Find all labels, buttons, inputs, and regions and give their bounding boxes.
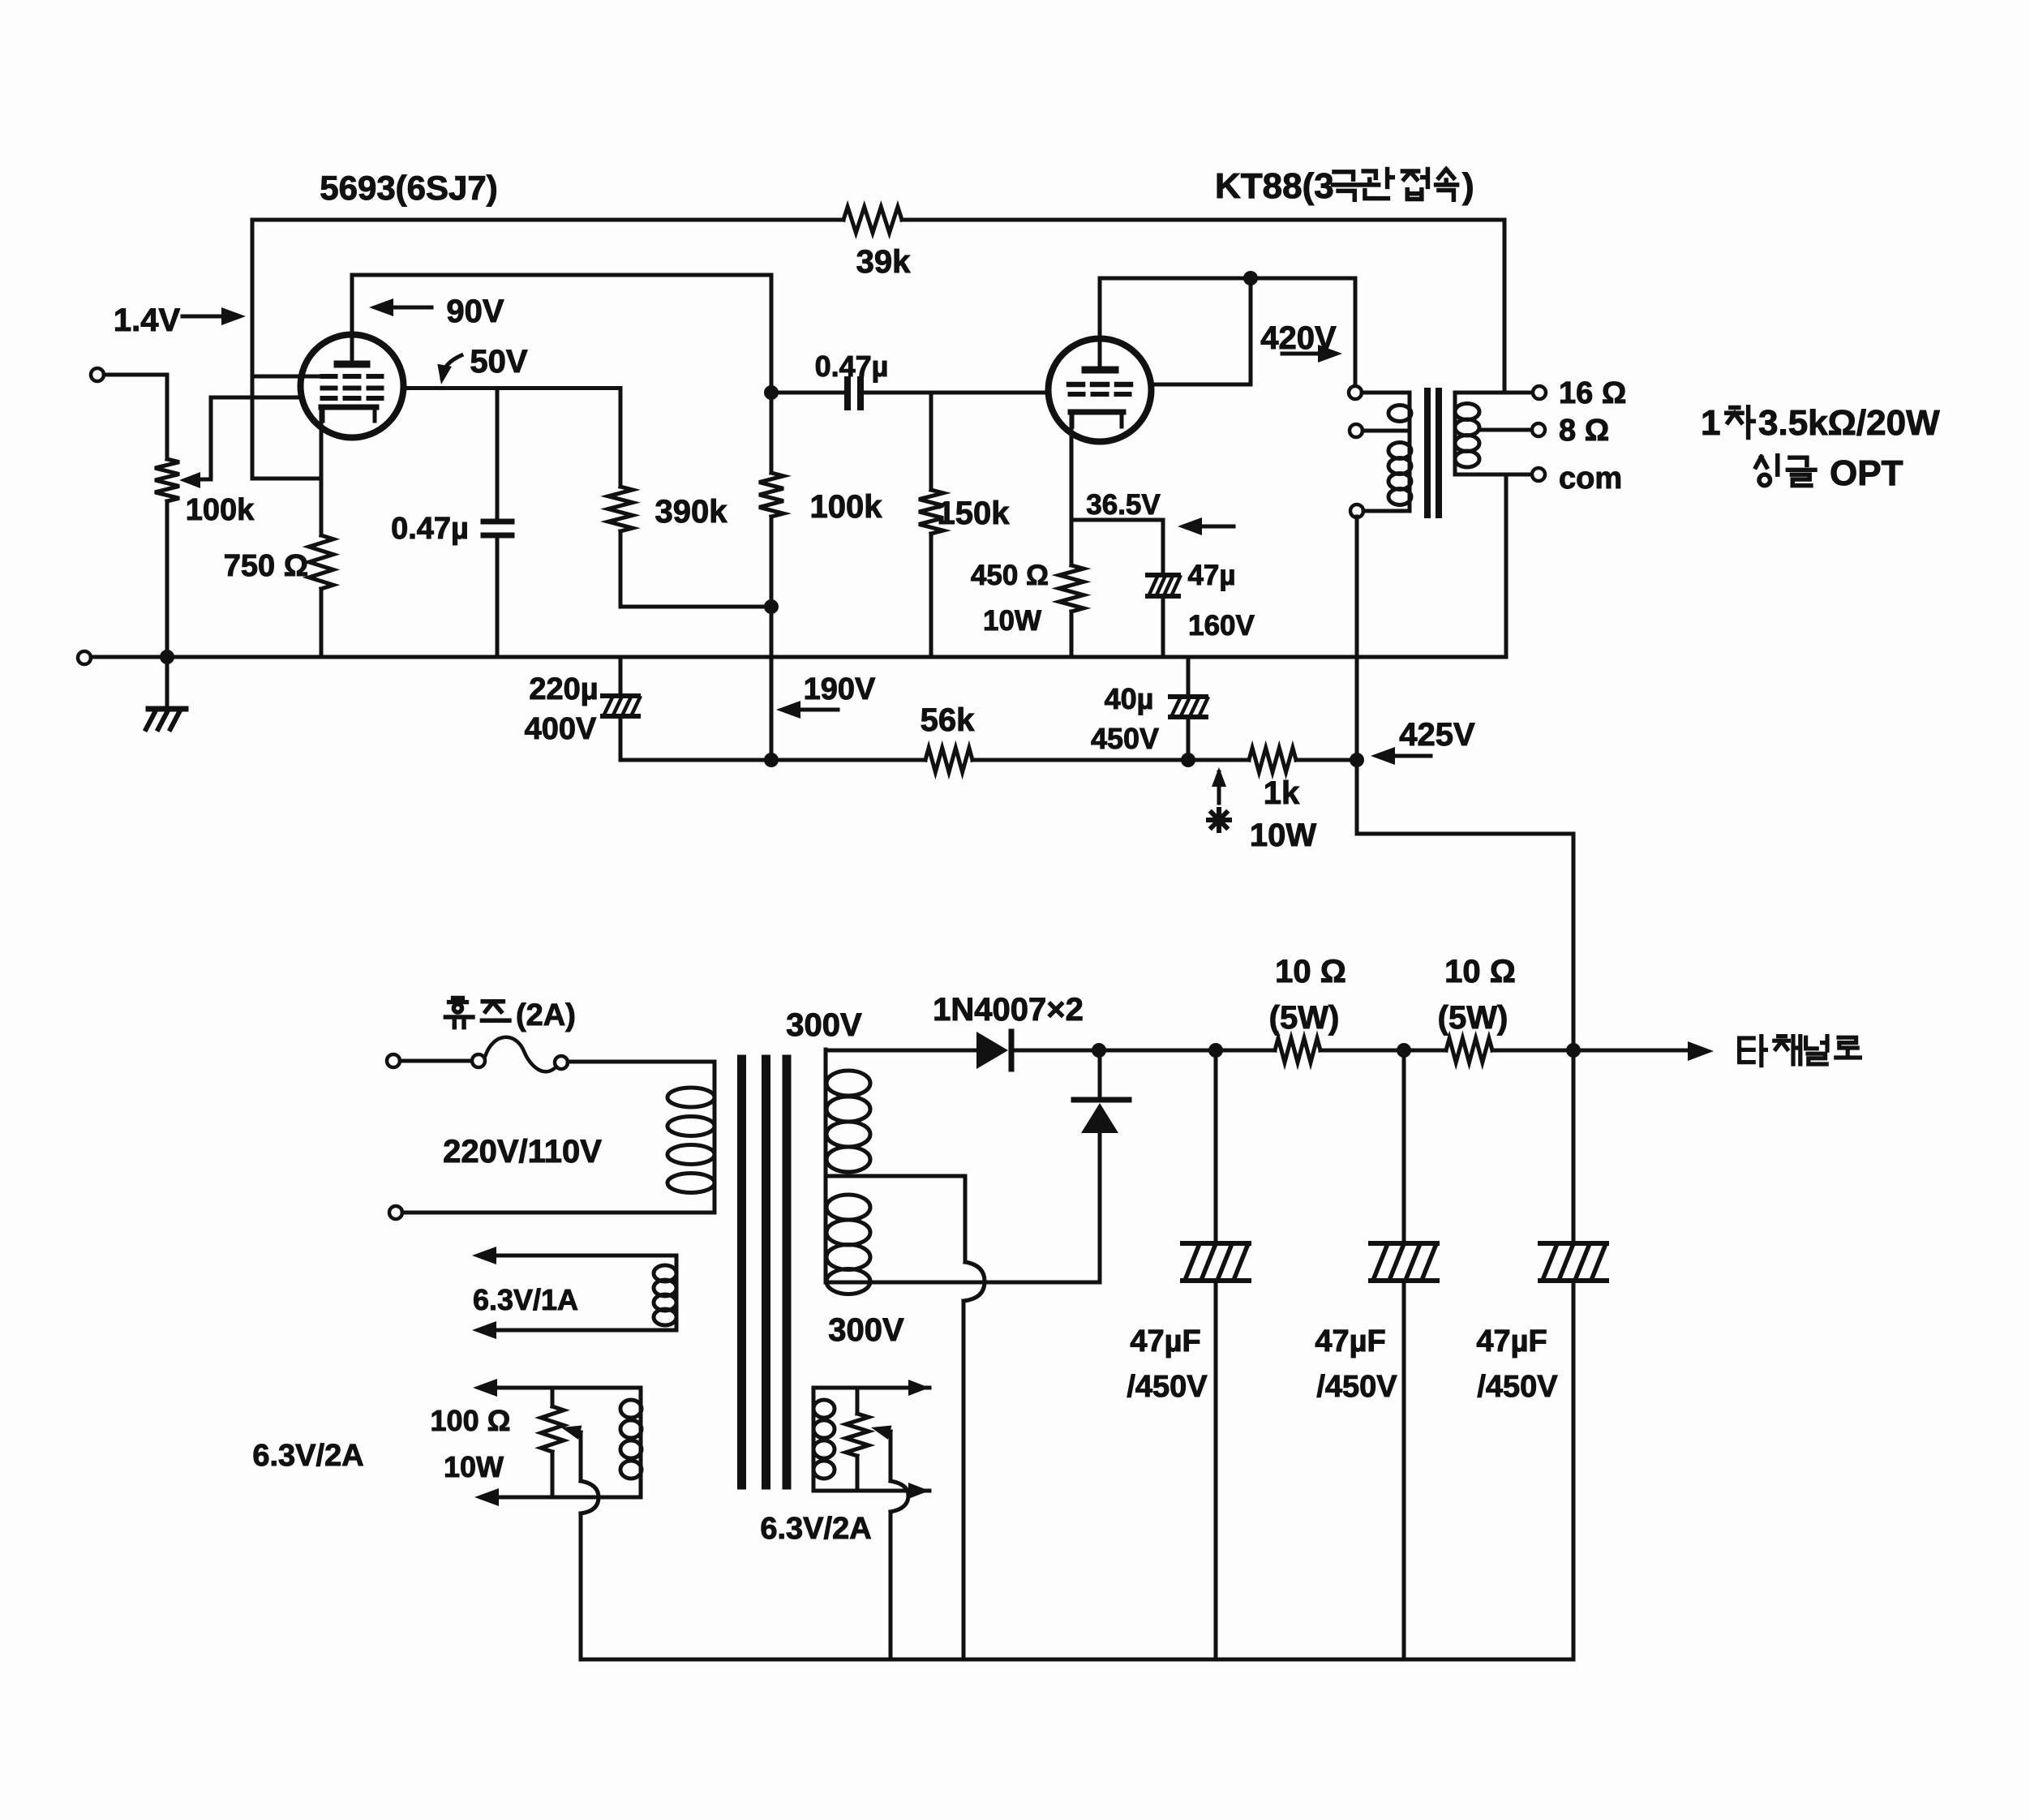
svg-text:56k: 56k [921,702,975,738]
svg-text:10W: 10W [983,605,1041,637]
svg-text:/450V: /450V [1477,1370,1558,1404]
svg-text:400V: 400V [525,712,597,746]
svg-text:10 Ω: 10 Ω [1275,954,1346,989]
svg-text:(2A): (2A) [516,998,576,1032]
svg-text:/450V: /450V [1127,1370,1208,1404]
svg-text:16 Ω: 16 Ω [1559,376,1626,410]
svg-text:6.3V/1A: 6.3V/1A [473,1283,578,1316]
svg-text:220µ: 220µ [529,672,598,706]
svg-text:90V: 90V [446,294,504,329]
svg-text:47µF: 47µF [1315,1324,1385,1359]
svg-text:com: com [1559,461,1622,496]
svg-text:40µ: 40µ [1105,682,1154,715]
svg-text:(5W): (5W) [1438,1000,1509,1036]
svg-text:420V: 420V [1260,320,1337,356]
svg-text:3.5kΩ/20W: 3.5kΩ/20W [1758,403,1940,443]
svg-text:160V: 160V [1188,610,1255,642]
svg-text:1k: 1k [1264,775,1300,811]
svg-text:190V: 190V [804,672,876,706]
svg-text:300V: 300V [786,1007,862,1043]
svg-text:36.5V: 36.5V [1086,489,1161,521]
svg-text:390k: 390k [655,494,728,530]
svg-text:300V: 300V [828,1312,904,1348]
svg-text:): ) [1462,166,1474,206]
svg-text:425V: 425V [1399,717,1475,753]
svg-text:100 Ω: 100 Ω [431,1404,511,1437]
svg-text:0.47µ: 0.47µ [815,350,889,383]
svg-text:39k: 39k [856,244,911,280]
svg-text:KT88(3: KT88(3 [1215,166,1334,206]
svg-text:10 Ω: 10 Ω [1444,954,1516,989]
svg-text:450 Ω: 450 Ω [971,560,1049,591]
svg-text:1N4007×2: 1N4007×2 [933,992,1084,1028]
svg-text:8 Ω: 8 Ω [1559,414,1609,448]
svg-text:150k: 150k [938,496,1011,531]
svg-text:47µF: 47µF [1476,1324,1547,1359]
svg-text:450V: 450V [1091,722,1159,755]
svg-text:220V/110V: 220V/110V [443,1134,602,1170]
svg-text:10W: 10W [1250,818,1316,853]
svg-text:47µF: 47µF [1130,1324,1200,1359]
svg-text:50V: 50V [470,344,527,380]
svg-text:(5W): (5W) [1269,1000,1340,1036]
svg-text:/450V: /450V [1316,1370,1397,1404]
svg-text:OPT: OPT [1830,453,1903,493]
svg-text:10W: 10W [444,1450,504,1483]
svg-text:1.4V: 1.4V [114,303,181,338]
svg-text:6.3V/2A: 6.3V/2A [760,1512,871,1546]
svg-text:1: 1 [1701,403,1720,443]
svg-text:100k: 100k [186,493,255,527]
svg-text:5693(6SJ7): 5693(6SJ7) [320,169,498,207]
svg-text:100k: 100k [810,489,883,525]
svg-text:0.47µ: 0.47µ [391,512,469,546]
svg-text:750 Ω: 750 Ω [224,549,308,583]
svg-text:6.3V/2A: 6.3V/2A [252,1439,363,1473]
svg-text:47µ: 47µ [1187,560,1235,591]
